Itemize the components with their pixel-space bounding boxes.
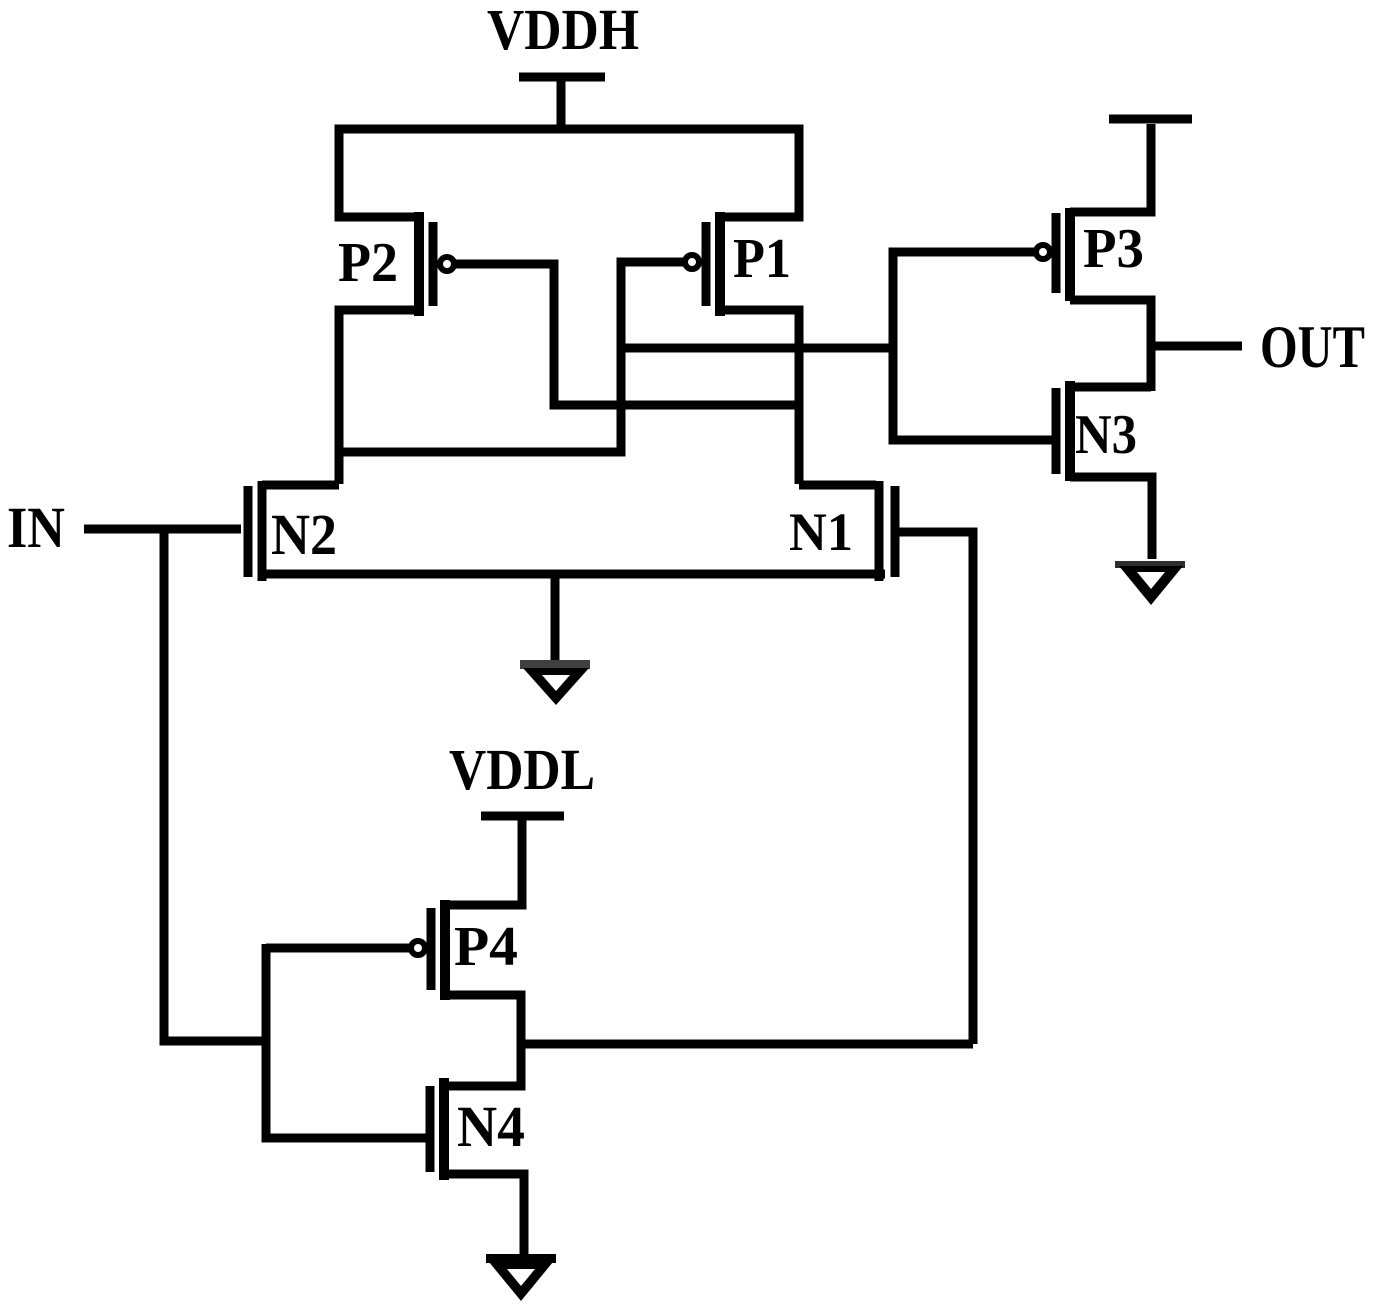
svg-text:VDDL: VDDL [449, 737, 595, 802]
wire IN [84, 525, 241, 534]
svg-text:N3: N3 [1075, 404, 1137, 466]
wire N1 gate to P4/N4 inverter output [899, 532, 973, 1044]
wire P1 gate to node A (P2 drain) [339, 262, 683, 452]
wire inverter output to N1 gate [521, 1040, 973, 1049]
wire P2 drain down [339, 310, 419, 484]
svg-text:P2: P2 [338, 232, 398, 294]
transistor N2 [248, 481, 262, 581]
ground below N2/N1 [520, 660, 590, 705]
wire IN branch down to P4/N4 gate bus [164, 529, 266, 1041]
ground below N4 [486, 1254, 556, 1301]
power symbol VDDL [481, 812, 564, 821]
gate bubble P1 [685, 255, 699, 269]
svg-text:VDDH: VDDH [487, 0, 639, 62]
gate bubble P3 [1036, 245, 1050, 259]
wire P4 gate to gate bus [266, 944, 409, 953]
power symbol at P3 source [1109, 115, 1192, 124]
transistor N4 [430, 1078, 444, 1180]
wire node A to output inverter gates [621, 344, 893, 353]
wire P2 gate to node B (P1 drain) [456, 264, 795, 405]
transistor N3 [1056, 381, 1070, 481]
svg-text:OUT: OUT [1260, 314, 1365, 380]
wire P4 drain to inverter output [444, 995, 521, 1086]
svg-text:N2: N2 [271, 502, 337, 567]
transistor P1 [706, 212, 720, 316]
wire N3 drain up to OUT node [1070, 383, 1151, 392]
wire to middle ground [551, 574, 560, 661]
power symbol VDDH [519, 77, 605, 133]
wire gate bus of P4/N4 [266, 944, 426, 1138]
wire P1 drain down [720, 310, 799, 484]
svg-text:IN: IN [7, 495, 65, 560]
wire VDDL to P4 source [445, 816, 522, 905]
wire common source rail N2/N1 [259, 570, 885, 579]
svg-text:N4: N4 [457, 1094, 525, 1159]
wire N4 source down [444, 1174, 524, 1256]
wire N2 drain up [262, 481, 339, 490]
wire N3 source down [1070, 477, 1152, 559]
svg-text:P3: P3 [1083, 218, 1144, 280]
gate bubble P4 [411, 941, 425, 955]
wire P3 drain to OUT node [1070, 300, 1151, 391]
wire top rail VDDH to P2/P1 sources [339, 129, 799, 217]
svg-text:N1: N1 [789, 502, 853, 562]
wire gate bus of P3/N3 [893, 252, 1052, 440]
transistor P3 [1056, 208, 1070, 301]
transistor N1 [879, 481, 895, 581]
svg-text:P1: P1 [733, 228, 791, 290]
ground below N3 [1115, 561, 1185, 605]
wire OUT [1151, 342, 1242, 351]
transistor P2 [419, 212, 433, 316]
gate bubble P2 [440, 257, 454, 271]
svg-text:P4: P4 [454, 916, 518, 978]
wire P3 source to power [1070, 124, 1151, 212]
transistor P4 [431, 900, 445, 1000]
wire N1 drain up [799, 481, 876, 490]
